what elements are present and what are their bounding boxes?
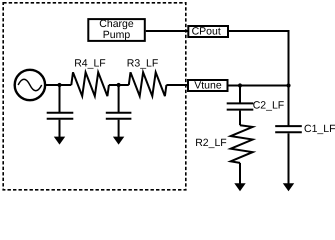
svg-text:Pump: Pump	[103, 29, 131, 41]
svg-text:R2_LF: R2_LF	[195, 137, 227, 149]
svg-text:C2_LF: C2_LF	[253, 100, 285, 112]
svg-text:R3_LF: R3_LF	[127, 58, 159, 70]
svg-text:C1_LF: C1_LF	[304, 123, 335, 135]
svg-text:R4_LF: R4_LF	[74, 58, 106, 70]
svg-text:Vtune: Vtune	[194, 80, 222, 92]
svg-text:CPout: CPout	[192, 26, 221, 38]
